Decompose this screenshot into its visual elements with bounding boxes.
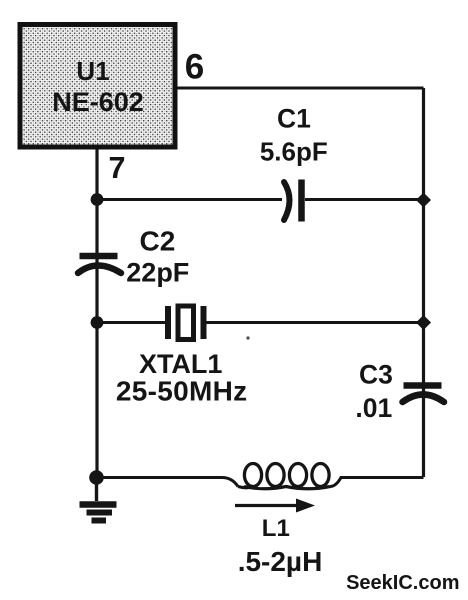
svg-text:25-50MHz: 25-50MHz [116,376,248,407]
capacitor C1 [260,104,328,222]
node junction C1/right [416,193,431,208]
svg-text:5.6pF: 5.6pF [260,137,328,167]
wire right vertical [422,88,425,477]
crystal XTAL1 [116,306,248,407]
svg-text:.01: .01 [355,393,392,423]
wire crystal horizontal [97,321,424,324]
node junction ground [89,470,104,485]
svg-text:C1: C1 [277,104,311,134]
svg-text:.5-2µH: .5-2µH [238,546,323,577]
svg-text:XTAL1: XTAL1 [139,349,223,379]
svg-text:U1: U1 [76,56,109,86]
svg-text:22pF: 22pF [126,258,189,288]
capacitor C3 [355,360,444,424]
svg-text:NE-602: NE-602 [52,87,144,117]
svg-text:7: 7 [109,151,126,185]
wire pin7 vertical left [95,149,98,477]
svg-text:6: 6 [185,48,204,87]
wire bottom horizontal [97,478,424,487]
wire pin6 top horizontal [177,87,424,90]
capacitor C2 [78,226,189,288]
IC U1 NE-602 [20,25,175,148]
ground [80,477,117,521]
node junction left/xtal [91,316,104,329]
inductor L1 [235,464,330,578]
node junction pin7/C1 [91,193,104,206]
speck artifact [246,336,249,339]
arrow [235,504,298,507]
svg-text:C2: C2 [140,226,176,257]
wire C1 horizontal [97,198,424,201]
svg-text:SeekIC.com: SeekIC.com [346,572,459,594]
svg-text:C3: C3 [359,360,393,390]
svg-text:L1: L1 [262,515,290,542]
node junction xtal/right [416,315,431,330]
